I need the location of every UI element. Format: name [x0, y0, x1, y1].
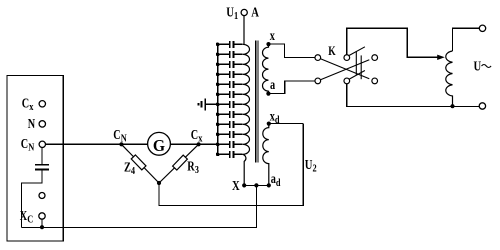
svg-text:Cx: Cx	[22, 95, 34, 113]
label U~	[474, 58, 492, 74]
tap capacitor row 4	[216, 71, 243, 78]
tap capacitor row 1	[216, 41, 243, 48]
node xd	[267, 122, 271, 126]
tap capacitor row 8	[216, 111, 243, 118]
wire U~ top terminal to winding	[453, 28, 480, 51]
svg-text:G: G	[153, 138, 166, 155]
primary winding (tapped)	[243, 44, 250, 185]
secondary winding xd-ad	[263, 124, 269, 186]
wire capacitor to Xc bus	[22, 170, 43, 228]
svg-text:X: X	[232, 178, 240, 194]
svg-text:Cx: Cx	[191, 127, 203, 145]
left box: test object enclosure	[7, 76, 63, 242]
svg-text:R3: R3	[187, 158, 199, 176]
node X	[242, 183, 246, 187]
wire xd to U2 rail	[269, 123, 303, 125]
tap capacitor row 2	[216, 51, 243, 58]
wire switch to regulator tap	[347, 28, 439, 57]
switch K contact right-upper	[372, 55, 378, 61]
switch K contact right-lower	[372, 78, 378, 84]
ground	[198, 98, 217, 110]
supply winding (regulating)	[446, 51, 453, 107]
node Cx (bridge)	[197, 142, 201, 146]
junction bus middle	[254, 183, 258, 187]
terminal (unlabeled)	[39, 193, 45, 199]
svg-text:x: x	[270, 27, 275, 43]
svg-text:a: a	[270, 76, 275, 92]
galvanometer G	[148, 132, 171, 155]
svg-text:K: K	[328, 45, 336, 59]
tap capacitor row 9	[216, 121, 243, 128]
tap arrow	[437, 55, 445, 60]
terminal Cn	[39, 141, 45, 147]
impedance Z4	[131, 155, 146, 170]
tap capacitor row 3	[216, 61, 243, 68]
svg-text:U1: U1	[226, 4, 238, 22]
wire U1 terminal to winding top	[243, 16, 245, 45]
transformer core	[256, 41, 258, 163]
node ad	[267, 183, 271, 187]
svg-text:U2: U2	[305, 157, 317, 175]
svg-text:N: N	[28, 116, 36, 132]
switch K contact left-lower	[315, 78, 321, 84]
wire bridge left diagonal	[121, 144, 159, 183]
wire Cn to capacitor	[41, 148, 43, 165]
node x	[266, 42, 270, 46]
terminal Xc	[39, 213, 45, 219]
junction supply bottom	[450, 104, 454, 108]
tap capacitor row 5	[216, 81, 243, 88]
tap capacitor row 6	[216, 91, 243, 98]
terminal U~ top	[479, 25, 485, 31]
node bridge vertex	[157, 181, 161, 185]
tap capacitor row 7	[216, 101, 243, 108]
wire switch to supply bottom	[347, 84, 480, 107]
tap capacitor row 12	[216, 151, 243, 158]
capacitor (internal standard)	[35, 164, 49, 166]
svg-text:CN: CN	[113, 126, 126, 144]
wire bridge right diagonal	[159, 144, 199, 183]
svg-text:ad: ad	[271, 171, 281, 189]
terminal U~ bottom	[479, 103, 485, 109]
secondary winding x-a	[263, 44, 269, 94]
wire a to switch lower	[268, 81, 315, 94]
terminal Cx	[39, 101, 45, 107]
svg-text:A: A	[251, 4, 259, 20]
switch K blades	[321, 47, 370, 80]
tap capacitor row 11	[216, 141, 243, 148]
wire Xc to transformer X bus	[22, 185, 257, 227]
switch K contact mid-lower	[344, 78, 350, 84]
junction at Xc	[40, 225, 44, 229]
svg-text:U: U	[474, 58, 482, 74]
node a	[266, 92, 270, 96]
svg-text:CN: CN	[21, 136, 34, 154]
tap capacitor row 10	[216, 131, 243, 138]
switch K contact left-upper	[315, 55, 321, 61]
tap rail of capacitor ladder	[217, 44, 219, 154]
switch K contact mid-upper	[344, 55, 350, 61]
wire Xc terminal down	[41, 219, 43, 227]
wire X to ad bus	[244, 184, 269, 186]
node Cn (bridge)	[119, 142, 123, 146]
resistor R3	[173, 155, 188, 170]
wire x to switch upper	[269, 44, 316, 58]
terminal N	[39, 121, 45, 127]
wire vertex to U2 rail	[159, 124, 303, 206]
wire Cn terminal to divider rail (bridge top)	[46, 143, 218, 145]
terminal U1/A	[241, 9, 247, 15]
